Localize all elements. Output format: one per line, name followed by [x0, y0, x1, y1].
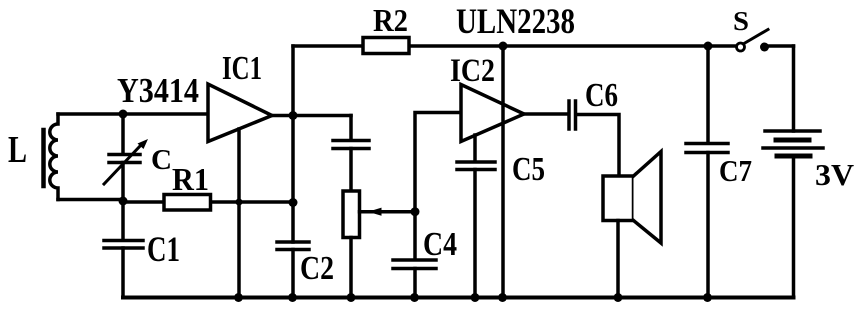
wire left column from top rail to IC1 output [291, 46, 295, 115]
svg-text:C7: C7 [719, 153, 752, 188]
svg-text:C1: C1 [147, 229, 180, 269]
capacitor C4 plates [393, 260, 436, 269]
wire top rail right segment after switch [769, 44, 794, 48]
wire tuning column upper [121, 114, 125, 154]
node: bottom junction C4 [410, 293, 419, 302]
svg-text:C: C [151, 144, 172, 176]
resistor R1 [164, 195, 211, 211]
wire potentiometer wiper [360, 210, 416, 214]
wire C2 to bottom rail [291, 250, 295, 298]
switch S arm [744, 30, 768, 44]
svg-text:L: L [8, 129, 27, 171]
node: bottom junction x=503 [498, 293, 507, 302]
speaker BL body [603, 176, 634, 221]
node: bottom junction IC1 bottom line [234, 293, 243, 302]
wire C4 column down [413, 212, 417, 260]
wire into C3 column [349, 116, 353, 141]
svg-text:IC2: IC2 [450, 53, 495, 89]
wire x=293 column (C2 branch) [291, 116, 295, 243]
wire C5 branch from IC2 bottom [473, 135, 477, 162]
wire potentiometer bottom to rail [349, 238, 353, 298]
battery 3V plates [765, 129, 820, 133]
wire IC1 bottom pin down to rail [237, 129, 241, 298]
resistor R2 [363, 38, 409, 54]
capacitor C2 plates [277, 242, 309, 250]
op-amp IC1 [208, 84, 272, 142]
node: bottom junction potentiometer [347, 293, 356, 302]
node: bottom junction C7 [703, 293, 712, 302]
svg-text:C2: C2 [300, 250, 334, 287]
switch S right contact dot [760, 43, 769, 52]
capacitor C7 plates [686, 144, 728, 153]
wire IC2 output to C6 [524, 112, 568, 116]
node: bottom junction C2 [288, 293, 297, 302]
svg-text:3V: 3V [815, 157, 855, 192]
node: bottom junction speaker [614, 293, 623, 302]
potentiometer wiper arrowhead [368, 208, 382, 216]
node: junction wiper / C4 [411, 207, 420, 216]
variable capacitor C arrow [104, 145, 141, 184]
svg-text:ULN2238: ULN2238 [456, 1, 575, 41]
svg-text:S: S [733, 6, 749, 36]
wire C6 to speaker [577, 115, 619, 177]
capacitor C6 plates [569, 101, 576, 129]
svg-text:C4: C4 [423, 226, 457, 263]
wire IC1 output [272, 114, 351, 118]
svg-text:Y3414: Y3414 [117, 71, 199, 110]
wire down to C1 [121, 202, 125, 240]
wire C1 to bottom rail [121, 248, 125, 298]
node: bottom junction C5 [471, 293, 480, 302]
node: small junction R1 row x IC1 bottom line [236, 199, 243, 206]
wire L top: coil to IC1 input [58, 112, 208, 116]
svg-text:C6: C6 [585, 77, 618, 114]
wire x=503 column top rail to bottom rail [501, 46, 505, 298]
wire C3 to potentiometer [349, 149, 353, 192]
capacitor C1 plates [104, 241, 143, 249]
capacitor C3 plates (unlabeled) [333, 141, 369, 149]
node: junction L-top / tuning cap [119, 110, 128, 119]
svg-text:IC1: IC1 [222, 50, 262, 87]
switch S contact circle [737, 43, 745, 51]
wire C7 column upper [706, 46, 710, 143]
wire C4 column up to IC2 input [415, 113, 461, 212]
wire battery column lower [792, 156, 796, 298]
svg-text:R1: R1 [172, 161, 209, 197]
speaker BL cone [634, 152, 662, 244]
wire top rail [293, 44, 736, 48]
wire battery column upper [792, 46, 796, 131]
wire C4 to bottom rail [413, 269, 417, 298]
node: junction top rail x=503 [499, 42, 508, 51]
node: junction at R1 row left [119, 197, 128, 206]
op-amp IC2 [461, 85, 524, 142]
wire L bottom [58, 198, 123, 202]
wire speaker to bottom rail [616, 221, 620, 298]
wire R1 row [123, 200, 293, 204]
svg-text:R2: R2 [373, 2, 408, 38]
node: junction IC1 output [289, 111, 298, 120]
variable capacitor C plates [109, 155, 140, 163]
wire C7 to bottom rail [706, 153, 710, 298]
wire bottom rail [123, 296, 794, 300]
wire tuning column mid [121, 163, 125, 203]
inductor L [50, 114, 58, 200]
potentiometer RP body [343, 191, 360, 238]
node: junction R1 row at x=293 [289, 198, 298, 207]
inductor core bar [41, 130, 46, 186]
wire C5 to bottom rail [473, 170, 477, 298]
capacitor C5 plates [457, 162, 495, 170]
svg-text:C5: C5 [512, 151, 545, 188]
node: junction top rail C7 [704, 42, 713, 51]
